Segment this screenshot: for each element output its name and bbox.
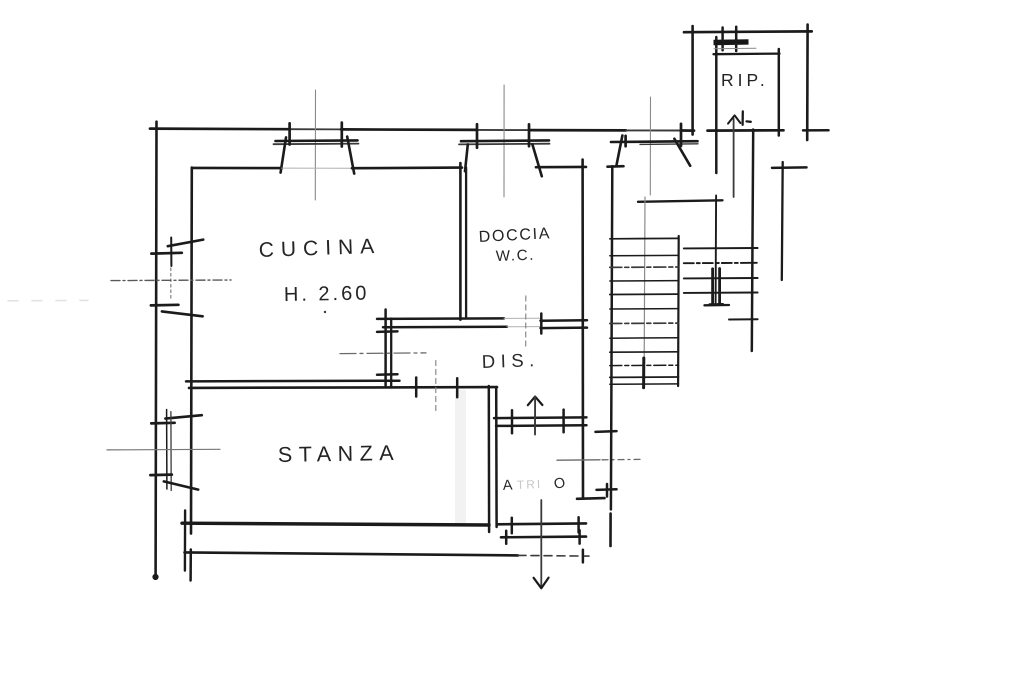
wall outer top through doccia window opening — [477, 129, 529, 131]
shower window sill upper — [461, 139, 549, 142]
svg-text:DIS.: DIS. — [481, 349, 540, 372]
left window1 tick bottom — [151, 303, 179, 306]
shower room left wall inner — [465, 168, 467, 319]
RIP inner top wall — [714, 52, 780, 55]
stair flight1 step 6 — [610, 308, 679, 310]
landing window sill lower — [640, 143, 698, 146]
stairwell left wall lower dash — [609, 514, 612, 547]
RIP door hatch tick 1 — [721, 28, 724, 51]
exit arrow down head — [534, 578, 549, 589]
svg-text:H. 2.60: H. 2.60 — [284, 283, 370, 306]
shower window jamb splay right — [532, 144, 541, 176]
kitchen window sill upper — [276, 139, 358, 142]
wall outer top middle — [341, 128, 477, 131]
left window2 axis light line — [107, 448, 220, 451]
dis top wall lower left — [383, 325, 507, 328]
svg-text:CUCINA: CUCINA — [258, 235, 381, 262]
svg-text:TRI: TRI — [517, 477, 543, 492]
atrio bottom wall upper — [498, 522, 587, 525]
stair flight1 step 1 — [610, 237, 679, 239]
cross tick near atrio right — [597, 488, 617, 491]
stair flight1 step 4 — [610, 280, 679, 282]
svg-text:O: O — [553, 475, 567, 493]
kitchen window jamb tick left — [288, 123, 291, 144]
faint scan streak — [455, 390, 466, 525]
atrio bottom upper tick right — [577, 517, 580, 532]
RIP door hatch dark block — [713, 39, 748, 45]
wall outer top end at RIP wall — [681, 129, 694, 132]
stair flight1 step 12 — [610, 383, 679, 385]
entry arrow up head — [528, 397, 543, 406]
atrio dash-dot guide line — [557, 459, 600, 461]
dis door centerline dashed — [525, 296, 527, 348]
RIP door hatch light sill — [714, 47, 756, 50]
atrio bottom wall lower — [501, 535, 586, 538]
shower room top wall right of window — [536, 166, 586, 169]
stair flight2 step 4 — [684, 292, 758, 294]
atrio right wall lower segment — [577, 497, 605, 500]
landing window sill upper — [611, 140, 698, 143]
stanza right wall inner — [495, 387, 498, 527]
apartment right wall vertical — [581, 160, 584, 499]
RIP outer top wall — [684, 30, 812, 34]
entry arrow up stem — [534, 397, 536, 435]
stanza top wall upper line — [186, 379, 400, 382]
stair newel bar right — [718, 269, 721, 305]
landing window jamb splay left — [617, 136, 623, 165]
kitchen top wall right segment — [352, 166, 462, 169]
north arrow stem — [733, 119, 735, 197]
left window2 pane vertical a — [166, 410, 168, 490]
kitchen window jamb splay right — [347, 137, 354, 174]
stair flight1 step 5 — [610, 293, 679, 295]
stairwell left wall — [611, 166, 612, 509]
left window1 tick top — [151, 251, 181, 255]
north arrow head — [728, 115, 740, 123]
dimension tick horizontal right side — [772, 166, 807, 169]
wall outer left vertical — [154, 122, 157, 576]
shower room left wall outer — [459, 163, 462, 320]
base boundary line dark — [185, 552, 519, 555]
stanza top wall tick 2 — [456, 378, 459, 397]
stair flight2 step 6 lower right — [729, 318, 758, 320]
atrio dash-dot guide line right — [602, 458, 641, 460]
kitchen window jamb splay left — [281, 137, 286, 172]
left window1 splay bottom — [162, 311, 203, 316]
shower window jamb tick right — [528, 124, 531, 146]
dis top wall upper left — [377, 317, 504, 320]
kitchen light guide line — [340, 352, 426, 355]
RIP inner left wall vertical — [715, 37, 718, 173]
dis top wall lower right — [541, 326, 588, 329]
base boundary line light right — [518, 554, 589, 557]
left window2 tick bottom — [150, 473, 171, 476]
stair flight1 step 2 — [610, 254, 679, 256]
stair flight1 step 10 — [610, 364, 679, 366]
dis door jamb tick — [540, 314, 543, 334]
svg-text:STANZA: STANZA — [278, 441, 401, 467]
jog wall inner vertical — [390, 319, 392, 387]
atrio bottom lower tick left — [505, 531, 508, 544]
stair flight1 step 8 — [610, 337, 679, 339]
atrio top wall tick left — [511, 410, 514, 433]
cross tick vertical near atrio right — [606, 484, 609, 497]
atrio bottom upper tick left — [511, 518, 514, 533]
base line tick left — [184, 511, 187, 571]
jog wall outer vertical — [384, 310, 387, 386]
stanza top wall lower line — [189, 386, 497, 389]
stanza bottom wall — [182, 523, 489, 525]
stairwell left wall top tick — [608, 165, 624, 168]
landing window jamb tick left — [624, 136, 627, 147]
wall outer top through kitchen window opening — [290, 128, 341, 130]
atrio top wall tick right — [562, 410, 565, 433]
RIP door hatch tick 2 — [735, 27, 738, 51]
RIP inner right wall vertical — [778, 49, 781, 136]
left window2 splay top — [165, 415, 201, 418]
stair mid rail vertical — [715, 196, 718, 303]
kitchen top wall faint through window — [282, 167, 352, 169]
left window1 pane dotted — [170, 268, 172, 298]
north arrow N vertical stroke — [741, 111, 744, 124]
stair newel bar left — [711, 269, 714, 304]
wall outer top through landing window opening — [626, 129, 681, 131]
left window1 pane vertical — [170, 238, 172, 267]
kitchen window jamb tick right — [340, 123, 343, 147]
stair centerline light — [643, 197, 646, 358]
shower window sill lower — [459, 143, 550, 146]
landing window jamb splay right — [674, 139, 690, 166]
shower window jamb tick left — [476, 124, 479, 148]
left window2 splay bottom — [164, 481, 198, 489]
atrio top wall lower — [496, 424, 587, 427]
north arrow dash after N — [747, 120, 751, 123]
dis top wall upper right — [541, 319, 588, 322]
base line tick right — [582, 550, 585, 563]
svg-text:W.C.: W.C. — [496, 247, 536, 265]
stair flight1 step 7 — [610, 322, 679, 324]
stair centerline dark bottom — [642, 358, 645, 388]
kitchen-stanza left wall vertical — [190, 168, 193, 534]
stair newel cap — [710, 303, 724, 305]
left window2 tick top — [151, 421, 174, 424]
left window1 splay top — [168, 240, 203, 247]
jog wall tick lower — [377, 373, 398, 376]
left wall lower dash to base line — [189, 550, 192, 581]
shower window jamb splay left — [465, 144, 468, 171]
atrio top wall upper — [494, 416, 587, 419]
RIP outer left wall vertical — [691, 26, 694, 135]
end dot of left wall — [152, 574, 158, 580]
stair flight2 step 1 — [684, 247, 758, 249]
RIP outer right wall vertical — [806, 25, 809, 141]
stanza door centerline dashed — [435, 361, 437, 412]
wall outer top right — [529, 129, 626, 132]
dimension line vertical right side — [781, 162, 784, 280]
left window2 pane vertical b — [170, 412, 172, 491]
wall outer top (main boundary line) — [150, 127, 290, 130]
stair flight2 step 3 — [684, 277, 758, 279]
jog wall tick upper — [377, 330, 398, 333]
stair flight1 step 3 — [610, 266, 679, 268]
shower window centerline — [503, 85, 505, 197]
kitchen window centerline — [314, 90, 316, 200]
dis top wall faint door gap upper — [504, 317, 540, 319]
stair flight1 step 11 — [610, 376, 679, 378]
svg-text:A: A — [502, 477, 513, 494]
RIP bottom dimension tick right — [803, 129, 829, 132]
kitchen top wall left segment — [192, 167, 282, 170]
kitchen window sill lower — [274, 143, 359, 146]
stair flight2 step 2 — [684, 262, 758, 264]
stairwell left wall cross tick — [596, 430, 617, 433]
stair landing line — [638, 200, 723, 202]
stair flight1 right edge — [677, 236, 680, 386]
stanza right wall outer — [488, 386, 491, 532]
faint ghost dashes left margin — [8, 299, 88, 301]
small dot under height label — [324, 311, 326, 313]
exit arrow down stem — [540, 500, 542, 586]
svg-text:DOCCIA: DOCCIA — [478, 225, 551, 246]
stair flight1 step 9 — [610, 351, 679, 353]
stanza top wall tick 1 — [415, 378, 418, 397]
dis top wall faint door gap lower — [507, 326, 540, 328]
RIP bottom wall — [708, 129, 784, 132]
stairwell right wall — [752, 130, 753, 352]
landing window jamb tick right — [680, 124, 683, 146]
left window1 axis dash-dot line — [111, 279, 231, 282]
landing window centerline — [649, 97, 651, 195]
stair flight2 step 5 left part — [705, 304, 730, 307]
atrio bottom lower tick right — [578, 530, 581, 543]
svg-text:RIP.: RIP. — [721, 70, 769, 90]
